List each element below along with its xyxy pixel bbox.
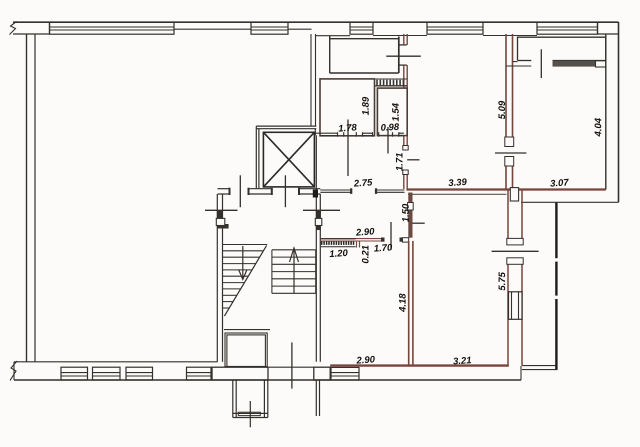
gray line below red wall	[408, 193, 506, 195]
window B5	[331, 367, 359, 380]
door leaf room098	[387, 127, 389, 154]
door jambs apartment entry	[381, 238, 385, 242]
porch walls	[233, 380, 268, 418]
lobby left wall double line	[217, 194, 222, 362]
window W5	[537, 22, 598, 34]
comb hatch corridor	[321, 239, 356, 247]
door leaf lobby D2 elevator	[284, 175, 286, 207]
label 2.75	[353, 179, 372, 187]
door leaf room404	[495, 152, 526, 154]
wall bottom exterior outer line	[14, 379, 521, 381]
door leaf room178	[347, 120, 349, 177]
label 1.70	[374, 244, 393, 252]
door leaf apartment entry	[390, 222, 392, 250]
wall top segment 3 inner line	[373, 35, 427, 37]
wall bottom inner line	[14, 361, 218, 363]
label 4.04	[595, 118, 602, 136]
wall 1.50	[408, 193, 412, 238]
wall under small rooms	[314, 132, 403, 137]
building right lower edge	[521, 201, 619, 203]
room box 0.98x1.54	[377, 88, 407, 136]
label 1.50	[402, 204, 409, 222]
vestibule box below stairs	[225, 333, 267, 367]
hall box top room	[330, 36, 399, 73]
door leaf big room	[205, 209, 238, 211]
door leaf wall 1.50	[413, 222, 425, 224]
closet door leaf	[540, 49, 542, 78]
wall right exterior	[618, 22, 620, 202]
wall top segment 2b inner line	[316, 35, 351, 37]
window B4	[187, 367, 212, 380]
porch door axis line	[249, 401, 251, 427]
wall top segment 1 inner line	[174, 28, 251, 30]
label 4.18	[399, 293, 406, 312]
label 1.20	[329, 249, 348, 257]
label 5.09	[498, 101, 505, 119]
balcony parapet thick line	[555, 202, 557, 369]
label 5.75	[499, 272, 506, 291]
stair right wall black segments and jamb	[315, 211, 322, 230]
door jambs room404	[505, 137, 514, 147]
entrance band lines	[268, 366, 314, 368]
jamb box right of dark bar	[596, 61, 606, 67]
red wall room339 to room404 upper	[506, 34, 513, 190]
window W1	[50, 22, 175, 34]
wall left exterior double line	[27, 34, 36, 362]
stair flight right treads	[272, 250, 316, 293]
label 1.54	[392, 103, 399, 121]
entrance door leaf	[291, 342, 293, 388]
stair bottom landing line	[224, 329, 270, 331]
corridor290 bottom wall	[320, 239, 381, 241]
lobby top wall band	[218, 188, 321, 195]
red wall hall to room339	[404, 34, 407, 88]
label 3.07	[550, 179, 569, 187]
elevator shaft walls	[256, 126, 316, 189]
label 2.90 bottom	[356, 356, 375, 364]
stair arrow up	[290, 248, 299, 293]
stair arrow down	[239, 246, 247, 280]
wall corridor275 to room339	[404, 136, 407, 189]
wall 5.75 lower right	[508, 190, 522, 366]
window B1	[61, 367, 88, 380]
balcony bottom double lines	[522, 366, 558, 370]
wall top-left end piece	[13, 22, 50, 34]
junction jamb box wall575 top	[510, 188, 518, 201]
duct box in wall575	[509, 292, 523, 320]
window W3	[350, 22, 373, 34]
door leaf lobby D1	[239, 175, 241, 207]
black cap below elevator	[313, 190, 318, 198]
lobby left wall black segments and jamb	[216, 211, 228, 229]
stair flight left diagonal	[224, 246, 266, 317]
door jambs wall575	[507, 238, 523, 245]
jamb box on wall 1.50	[408, 203, 414, 211]
closet strip top right	[518, 37, 606, 60]
label 1.71	[396, 153, 403, 171]
porch step	[238, 412, 260, 415]
hall door jamb ticks	[399, 44, 407, 46]
window B3	[126, 367, 153, 380]
stub 0.21	[357, 241, 360, 248]
apartment wall 4.18 red	[409, 241, 413, 366]
wall top exterior outer line	[13, 21, 619, 23]
wall bottom left end + break mark	[10, 361, 17, 381]
wall top-right corner piece	[598, 22, 619, 34]
plinth step bottom right	[520, 366, 522, 380]
label 0.21	[362, 246, 369, 264]
door leaf wall575	[492, 250, 539, 252]
window W2	[251, 22, 288, 34]
room404 right wall	[605, 34, 607, 190]
label 3.21	[453, 357, 471, 365]
red wall below rooms 339 307	[406, 188, 605, 190]
hall door leaf	[386, 55, 421, 57]
door jambs corridor339	[403, 146, 408, 151]
label 3.39	[448, 178, 467, 186]
label 1.89	[362, 97, 369, 115]
stair right wall double line	[316, 135, 320, 361]
label 0.98	[381, 123, 399, 131]
big room right wall (to hall)	[311, 34, 316, 126]
dark bar under closet	[553, 61, 596, 67]
label 2.90 corridor	[356, 228, 375, 236]
comb hatch above room 0.98	[375, 79, 407, 86]
right stub below wall	[316, 380, 319, 416]
door leaf lobby to corridor	[303, 209, 340, 211]
corridor bottom wall at lobby	[320, 188, 404, 194]
stair flight left treads	[223, 245, 268, 309]
room box 1.78x1.89	[320, 79, 375, 136]
wall top segment 2 inner line	[288, 28, 312, 30]
entrance wall box 2	[314, 367, 330, 380]
window B2	[93, 367, 121, 380]
window W4	[427, 22, 483, 34]
door leaf corridor339	[407, 159, 419, 161]
break mark top-left	[10, 22, 17, 35]
wall under closet left part	[506, 62, 531, 66]
entrance wall box 1	[212, 367, 268, 380]
apartment bottom red wall	[330, 364, 509, 366]
label 1.78	[338, 124, 357, 132]
elevator car box with X	[263, 132, 314, 187]
wall top segment 4 inner line	[483, 35, 537, 37]
